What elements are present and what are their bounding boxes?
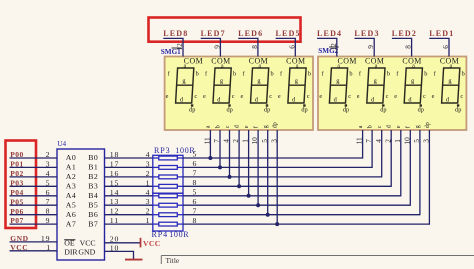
junction dot row 4 (237, 184, 241, 188)
svg-text:A3: A3 (66, 182, 77, 191)
resistor pack RP3 body (153, 155, 183, 193)
resistor element 1 of RP4 (153, 195, 159, 197)
junction dot row 2 (218, 165, 222, 169)
svg-text:dp: dp (425, 122, 431, 128)
junction dot row 8 (275, 222, 279, 226)
svg-text:B3: B3 (88, 182, 98, 191)
svg-text:5: 5 (192, 150, 196, 159)
svg-text:3: 3 (146, 159, 150, 168)
resistor element 4 of RP4 (153, 223, 159, 225)
wire SMG1 pin f down to row 6 (257, 130, 259, 205)
svg-text:c: c (386, 93, 389, 100)
svg-text:g: g (263, 125, 269, 128)
svg-text:2: 2 (146, 169, 150, 178)
svg-text:b: b (424, 70, 427, 77)
svg-text:B6: B6 (88, 210, 98, 219)
svg-text:LED3: LED3 (354, 29, 379, 38)
svg-text:20: 20 (110, 235, 119, 244)
component ref SMG1 (161, 48, 181, 56)
wire P05 to U4 A5 (10, 204, 58, 206)
wire SMG2 pin a down to row 1 (362, 130, 364, 159)
wire LED6 to COM (238, 38, 258, 56)
svg-text:15: 15 (110, 178, 119, 187)
svg-text:12: 12 (329, 43, 338, 51)
resistor element 2 of RP4 (153, 204, 159, 206)
wire SMG2 pin dp down to row 8 (428, 130, 430, 225)
svg-text:A6: A6 (66, 210, 77, 219)
svg-text:e: e (394, 93, 397, 100)
wire P06 to U4 A6 (10, 214, 58, 216)
svg-text:c: c (348, 93, 351, 100)
svg-text:dp: dp (273, 122, 279, 128)
svg-text:LED1: LED1 (429, 29, 454, 38)
svg-text:e: e (166, 93, 169, 100)
svg-text:b: b (387, 70, 390, 77)
svg-text:RP3: RP3 (154, 146, 171, 155)
svg-text:LED8: LED8 (163, 29, 188, 38)
svg-text:LED6: LED6 (238, 29, 263, 38)
svg-text:2: 2 (146, 207, 150, 216)
svg-text:B2: B2 (88, 172, 98, 181)
svg-text:5: 5 (46, 178, 51, 187)
svg-text:d: d (234, 125, 240, 128)
wire U4 B3 to RP (105, 185, 153, 187)
svg-text:4: 4 (146, 150, 150, 159)
svg-text:8: 8 (250, 45, 259, 49)
junction dot row 5 (247, 194, 251, 198)
svg-text:LED5: LED5 (276, 29, 301, 38)
wire LED4 to COM (317, 38, 337, 56)
wire SMG2 pin g down to row 7 (419, 130, 421, 215)
svg-text:a: a (206, 125, 212, 128)
svg-text:8: 8 (46, 207, 51, 216)
svg-text:b: b (367, 125, 373, 128)
svg-text:U4: U4 (57, 140, 66, 148)
wire segment row 3 (RP out to SMG2 c) (183, 176, 382, 178)
component ref SMG2 (318, 47, 338, 55)
svg-text:dp: dp (343, 107, 349, 114)
svg-text:5: 5 (192, 188, 196, 197)
svg-text:c: c (377, 125, 383, 128)
svg-text:LED7: LED7 (201, 29, 226, 38)
wire LED3 to COM (355, 38, 375, 56)
wire SMG2 pin c down to row 3 (381, 130, 383, 178)
wire P02 to U4 A2 (10, 176, 58, 178)
svg-text:c: c (194, 93, 197, 100)
svg-text:e: e (396, 125, 402, 128)
power symbol VCC (141, 238, 161, 248)
wire SMG1 pin c down to row 3 (229, 130, 231, 177)
junction dot row 1 (208, 156, 212, 160)
svg-text:dp: dp (264, 107, 270, 114)
wire SMG1 pin a down to row 1 (209, 130, 211, 158)
svg-text:Title: Title (166, 256, 180, 264)
svg-text:VCC: VCC (143, 239, 161, 248)
svg-text:f: f (252, 126, 259, 128)
annotation box around P00..P07 labels (6, 141, 37, 229)
svg-text:DIR: DIR (64, 248, 78, 257)
IC U4 body (57, 149, 105, 260)
svg-text:A0: A0 (66, 153, 77, 162)
svg-text:12: 12 (110, 207, 119, 216)
svg-text:e: e (244, 125, 250, 128)
svg-text:7: 7 (46, 197, 51, 206)
svg-text:A7: A7 (66, 219, 77, 228)
svg-text:19: 19 (41, 234, 50, 243)
svg-text:c: c (269, 93, 272, 100)
svg-text:100R: 100R (169, 230, 189, 239)
svg-text:9: 9 (46, 216, 51, 225)
svg-text:A4: A4 (66, 191, 77, 200)
svg-text:6: 6 (441, 45, 450, 49)
svg-text:11: 11 (110, 216, 119, 225)
ground symbol (125, 259, 143, 261)
wire VCC to U4 DIR (10, 250, 58, 252)
svg-text:LED4: LED4 (317, 29, 342, 38)
wire P07 to U4 A7 (10, 223, 58, 225)
wire SMG2 pin d down to row 4 (390, 130, 392, 187)
wire GND to U4 OE (10, 241, 58, 243)
wire SMG1 pin g down to row 7 (267, 130, 269, 215)
wire U4 B2 to RP (105, 176, 153, 178)
svg-text:B5: B5 (88, 200, 98, 209)
wire LED8 to COM (163, 38, 183, 56)
svg-text:COM: COM (184, 57, 203, 66)
resistor element 3 of RP4 (153, 214, 159, 216)
svg-text:b: b (196, 70, 199, 77)
sheet title block (161, 256, 474, 266)
svg-text:9: 9 (366, 45, 375, 49)
svg-text:6: 6 (46, 188, 51, 197)
resistor element 1 of RP3 (153, 157, 159, 159)
svg-text:dp: dp (418, 107, 424, 114)
wire U4 B6 to RP (105, 214, 153, 216)
svg-text:b: b (308, 70, 311, 77)
svg-text:8: 8 (192, 216, 196, 225)
svg-text:A5: A5 (66, 200, 77, 209)
svg-text:8: 8 (192, 178, 196, 187)
svg-text:2: 2 (46, 150, 51, 159)
svg-text:b: b (349, 70, 352, 77)
wire SMG2 pin f down to row 6 (409, 130, 411, 206)
svg-text:A2: A2 (66, 172, 77, 181)
wire U4 VCC pin 20 (105, 242, 141, 244)
wire segment row 6 (RP out to SMG2 f) (183, 204, 410, 206)
svg-text:e: e (241, 93, 244, 100)
svg-text:16: 16 (110, 169, 119, 178)
svg-text:1: 1 (46, 243, 50, 252)
wire U4 B0 to RP (105, 157, 153, 159)
annotation box around LED8..LED5 labels (149, 18, 301, 42)
svg-text:B1: B1 (88, 163, 98, 172)
junction dot row 6 (256, 203, 260, 207)
svg-text:LED2: LED2 (392, 29, 417, 38)
svg-text:7: 7 (192, 206, 196, 215)
wire SMG1 pin e down to row 5 (248, 130, 250, 196)
svg-text:12: 12 (175, 43, 184, 51)
svg-text:4: 4 (146, 188, 150, 197)
svg-text:dp: dp (189, 107, 195, 114)
junction dot row 7 (266, 213, 270, 217)
svg-text:d: d (387, 125, 393, 128)
svg-text:3: 3 (146, 197, 150, 206)
wire segment row 1 (RP out to SMG2 a) (183, 157, 363, 159)
wire LED2 to COM (392, 38, 412, 56)
svg-text:e: e (278, 93, 281, 100)
svg-text:c: c (423, 93, 426, 100)
svg-text:b: b (271, 70, 274, 77)
svg-text:10: 10 (110, 243, 119, 252)
svg-text:c: c (460, 93, 463, 100)
svg-text:6: 6 (287, 45, 296, 49)
junction dot row 3 (228, 175, 232, 179)
svg-text:f: f (405, 126, 412, 128)
svg-text:3: 3 (46, 159, 51, 168)
resistor pack RP4 body (153, 193, 183, 231)
svg-text:c: c (225, 125, 231, 128)
wire P04 to U4 A4 (10, 195, 58, 197)
svg-text:e: e (203, 93, 206, 100)
svg-text:b: b (215, 125, 221, 128)
wire U4 B1 to RP (105, 166, 153, 168)
svg-text:B4: B4 (88, 191, 98, 200)
wire U4 B5 to RP (105, 204, 153, 206)
svg-text:dp: dp (455, 107, 461, 114)
svg-text:18: 18 (110, 150, 119, 159)
svg-text:1: 1 (146, 216, 150, 225)
wire SMG2 pin b down to row 2 (371, 130, 373, 168)
svg-text:8: 8 (404, 45, 413, 49)
svg-text:4: 4 (46, 169, 51, 178)
resistor element 4 of RP3 (153, 185, 159, 187)
U4 pin name OE (active low) (64, 239, 75, 248)
wire segment row 4 (RP out to SMG2 d) (183, 185, 391, 187)
svg-text:1: 1 (146, 178, 150, 187)
svg-text:c: c (232, 93, 235, 100)
wire SMG1 pin dp down to row 8 (276, 130, 278, 224)
svg-text:e: e (357, 93, 360, 100)
wire SMG1 pin b down to row 2 (219, 130, 221, 167)
wire LED1 to COM (429, 38, 449, 56)
wire U4 B4 to RP (105, 195, 153, 197)
svg-text:dp: dp (301, 107, 307, 114)
resistor element 3 of RP3 (153, 176, 159, 178)
wire segment row 5 (RP out to SMG2 e) (183, 195, 401, 197)
wire SMG2 pin e down to row 5 (400, 130, 402, 196)
wire segment row 2 (RP out to SMG2 b) (183, 166, 372, 168)
svg-text:e: e (319, 93, 322, 100)
svg-text:b: b (233, 70, 236, 77)
svg-text:VCC: VCC (80, 239, 96, 248)
wire LED7 to COM (201, 38, 221, 56)
svg-text:B0: B0 (88, 153, 98, 162)
svg-text:13: 13 (110, 197, 119, 206)
7-seg display module SMG2 body (318, 57, 466, 131)
wire P00 to U4 A0 (10, 157, 58, 159)
wire P03 to U4 A3 (10, 185, 58, 187)
svg-text:9: 9 (212, 45, 221, 49)
wire segment row 8 (RP out to SMG2 dp) (183, 223, 429, 225)
svg-text:6: 6 (192, 197, 196, 206)
wire segment row 7 (RP out to SMG2 g) (183, 214, 420, 216)
svg-text:g: g (415, 125, 421, 128)
svg-text:dp: dp (380, 107, 386, 114)
svg-text:GND: GND (78, 248, 95, 257)
svg-text:B7: B7 (88, 219, 98, 228)
svg-text:A1: A1 (66, 163, 77, 172)
svg-text:dp: dp (226, 107, 232, 114)
wire SMG1 pin d down to row 4 (238, 130, 240, 186)
wire U4 B7 to RP (105, 223, 153, 225)
resistor element 2 of RP3 (153, 166, 159, 168)
svg-text:a: a (358, 125, 364, 128)
svg-text:17: 17 (110, 159, 119, 168)
svg-text:RP4: RP4 (152, 230, 169, 239)
wire U4 GND pin 10 (105, 251, 134, 259)
svg-text:COM: COM (338, 57, 357, 66)
wire LED5 to COM (276, 38, 296, 56)
svg-text:14: 14 (110, 188, 119, 197)
svg-text:e: e (432, 93, 435, 100)
7-seg display module SMG1 body (165, 57, 313, 131)
svg-text:b: b (462, 70, 465, 77)
wire P01 to U4 A1 (10, 166, 58, 168)
svg-text:c: c (307, 93, 310, 100)
